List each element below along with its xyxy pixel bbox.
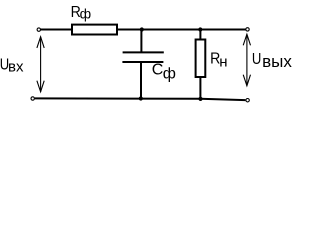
svg-text:ф: ф (80, 6, 92, 22)
svg-text:вх: вх (8, 59, 24, 76)
svg-text:C: C (152, 61, 164, 78)
svg-text:ф: ф (163, 66, 176, 83)
svg-text:вых: вых (262, 52, 292, 71)
svg-text:н: н (219, 53, 227, 70)
svg-text:U: U (252, 51, 261, 68)
